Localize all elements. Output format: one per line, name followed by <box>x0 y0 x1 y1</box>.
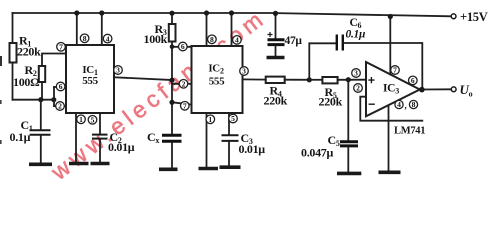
ground C5 <box>337 172 361 176</box>
capacitor C4 47u electrolytic <box>275 13 277 38</box>
svg-text:0.01μ: 0.01μ <box>108 140 135 154</box>
ground C3 <box>220 165 241 169</box>
svg-text:+15V: +15V <box>460 10 488 24</box>
pin circles IC2 <box>179 35 249 124</box>
wire: R2 to node <box>41 82 43 100</box>
minus sign <box>369 103 375 105</box>
wire: IC3 pin7 to rail <box>389 17 391 75</box>
ground IC1 pin1 <box>69 162 89 166</box>
wire: IC2 pin4 to rail <box>231 13 233 46</box>
svg-text:100Ω: 100Ω <box>13 75 40 89</box>
plus sign <box>368 77 374 83</box>
wire: feedback output to -input <box>360 97 422 121</box>
wire: middle vertical bus <box>171 42 173 135</box>
svg-text:2: 2 <box>356 84 360 93</box>
node: R4/R5/C6 junction <box>307 77 312 82</box>
pin circles IC1 <box>56 34 123 125</box>
svg-text:555: 555 <box>209 76 225 88</box>
node: output junction <box>419 87 425 93</box>
svg-text:7: 7 <box>59 43 63 52</box>
capacitor C3 <box>228 113 230 135</box>
svg-text:3: 3 <box>116 66 120 75</box>
svg-text:7: 7 <box>183 102 187 111</box>
svg-text:3: 3 <box>354 69 358 78</box>
wire: IC3 pin4/8 to ground <box>388 106 390 171</box>
svg-text:6: 6 <box>411 76 415 85</box>
resistor R4 <box>266 77 285 83</box>
node: +input/C5 junction <box>346 77 351 82</box>
svg-text:7: 7 <box>393 66 397 75</box>
svg-text:8: 8 <box>412 100 416 109</box>
svg-text:47μ: 47μ <box>285 35 303 47</box>
wire: IC1 pin8 to rail <box>76 13 78 45</box>
ground IC3 <box>379 171 401 175</box>
watermark www.elecfans.com <box>45 4 270 186</box>
wire: IC2 pin3 to R4 <box>243 78 266 80</box>
svg-text:6: 6 <box>59 82 63 91</box>
wire: IC2 pin7 stub <box>172 102 192 104</box>
ground Cx <box>159 168 178 172</box>
wire: IC2 pin2 stub <box>172 83 192 85</box>
svg-text:8: 8 <box>83 34 87 43</box>
svg-text:8: 8 <box>210 35 214 44</box>
svg-text:5: 5 <box>231 114 235 123</box>
capacitor C6 0.1u feedback <box>309 43 336 80</box>
op-amp IC2 555 box <box>192 46 243 113</box>
capacitor C1 <box>40 100 42 130</box>
capacitor C2 <box>99 113 101 134</box>
op-amp IC1 555 box <box>66 45 114 113</box>
scan edge marks <box>0 56 2 66</box>
node: R2/C1 junction <box>38 97 43 102</box>
node: +15V terminal <box>451 14 456 19</box>
wire: pin7 stub of IC1 <box>42 54 66 67</box>
wire: rail to R1 <box>12 13 14 43</box>
node: pin2/6 junction <box>51 97 56 102</box>
wire: horizontal to pins 2/6 <box>13 99 55 101</box>
svg-text:555: 555 <box>82 75 98 87</box>
capacitor C5 0.047u <box>347 80 349 141</box>
svg-text:1: 1 <box>208 115 212 124</box>
svg-text:4: 4 <box>235 36 239 45</box>
ground C2 <box>91 162 110 166</box>
wire: R1 down to node <box>12 63 14 100</box>
svg-text:0.1μ: 0.1μ <box>346 29 366 41</box>
resistor R3 <box>171 13 173 24</box>
capacitor Cx <box>162 134 182 137</box>
wire: IC2 pin1 to ground <box>206 113 208 167</box>
wire: output <box>420 88 452 90</box>
svg-text:LM741: LM741 <box>394 126 425 137</box>
svg-text:220k: 220k <box>319 95 343 109</box>
svg-text:5: 5 <box>91 116 95 125</box>
svg-text:0.047μ: 0.047μ <box>301 146 334 160</box>
svg-text:220k: 220k <box>264 93 288 107</box>
wire: IC2 pin6 stub <box>172 46 192 48</box>
pin circles IC3 <box>352 66 418 111</box>
wire: IC1 pin4 to rail <box>101 13 103 45</box>
svg-text:4: 4 <box>397 100 401 109</box>
wire: IC1 pin1 to ground <box>75 113 77 162</box>
svg-text:100k: 100k <box>144 32 168 46</box>
svg-text:4: 4 <box>106 34 110 43</box>
wire: +15V top rail <box>13 13 452 16</box>
svg-text:1: 1 <box>79 115 83 124</box>
wire: IC1 pin3 output <box>114 77 172 80</box>
svg-text:220k: 220k <box>17 45 41 59</box>
ground IC2 pin1 <box>199 167 219 171</box>
node: Uo terminal <box>451 87 456 92</box>
wire: IC2 pin8 to rail <box>206 13 208 46</box>
ground C4 <box>267 56 285 60</box>
wire: R5 to op-amp + input <box>338 79 366 81</box>
svg-text:2: 2 <box>182 80 186 89</box>
wire: R4 to junction <box>285 79 310 81</box>
resistor R2 <box>39 66 45 82</box>
svg-text:3: 3 <box>242 67 246 76</box>
svg-text:0.01μ: 0.01μ <box>239 142 266 156</box>
svg-text:0.1μ: 0.1μ <box>10 130 31 144</box>
svg-text:6: 6 <box>181 42 185 51</box>
resistor R5 <box>309 79 322 81</box>
ground C1 <box>29 163 52 167</box>
wire: pins 6-2 tie of IC1 <box>53 87 55 106</box>
op-amp IC3 triangle <box>366 62 420 116</box>
svg-text:,: , <box>405 101 407 111</box>
svg-text:2: 2 <box>58 102 62 111</box>
resistor R1 <box>10 43 17 63</box>
